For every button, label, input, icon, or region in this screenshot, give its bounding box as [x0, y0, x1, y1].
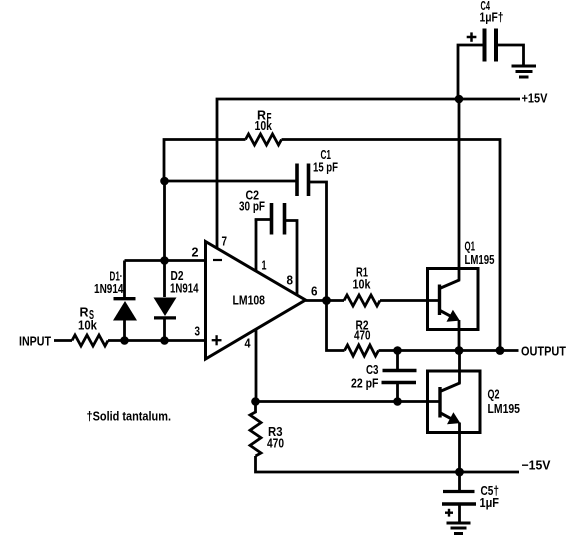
svg-text:3: 3	[195, 324, 201, 339]
node C3 top junction	[393, 346, 402, 355]
transistor Q1 internals	[440, 267, 460, 351]
svg-text:1μF: 1μF	[480, 495, 500, 510]
svg-text:LM108: LM108	[233, 293, 266, 308]
wire input node to pin3	[108, 339, 206, 342]
svg-text:30 pF: 30 pF	[239, 199, 265, 214]
svg-text:10k: 10k	[353, 277, 372, 292]
label C4 plus polarity	[467, 32, 477, 41]
svg-text:−15V: −15V	[522, 458, 551, 473]
node D2 pin2 junction	[160, 256, 169, 265]
capacitor C5	[442, 492, 476, 505]
wire pin2 inverting input	[125, 259, 207, 262]
svg-text:OUTPUT: OUTPUT	[521, 344, 566, 359]
svg-text:15 pF: 15 pF	[313, 160, 338, 175]
label op-amp minus input	[213, 259, 222, 261]
wire R1 to Q1 base	[380, 299, 440, 302]
resistor R1	[344, 295, 380, 306]
wire C5 top stub	[458, 472, 461, 491]
svg-text:1μF†: 1μF†	[480, 10, 504, 25]
wire top rail pin7 to +15V	[217, 99, 520, 255]
wire C3 bottom stub	[396, 383, 399, 402]
wire C3 top stub	[396, 351, 399, 370]
svg-text:10k: 10k	[255, 118, 273, 133]
capacitor C2	[272, 203, 285, 235]
svg-text:22 pF: 22 pF	[351, 376, 379, 391]
wire C4 left lead	[458, 45, 485, 99]
node output Q1 emitter junction	[455, 346, 464, 355]
transistor Q1 LM195 box	[428, 269, 479, 330]
svg-text:4: 4	[245, 336, 252, 351]
label RF	[257, 108, 272, 126]
wire pin6 node down to R2	[327, 301, 345, 351]
svg-text:†Solid tantalum.: †Solid tantalum.	[87, 409, 172, 424]
wire C2 right stub and pin8 vertical	[285, 221, 298, 301]
svg-text:10k: 10k	[78, 318, 98, 333]
node pin6 output junction	[322, 296, 331, 305]
svg-text:INPUT: INPUT	[19, 334, 51, 349]
transistor Q2 internals	[440, 351, 460, 473]
node input D2 junction	[160, 336, 169, 345]
label op-amp plus input	[212, 335, 222, 345]
wire D2 branch vertical	[163, 181, 166, 297]
capacitor C3	[382, 371, 417, 383]
op-amp U1 LM108 triangle	[206, 242, 306, 360]
transistor Q2 LM195 box	[428, 371, 481, 433]
wire pin1 pin4 balance vertical	[255, 220, 258, 402]
wire pin6 to R1	[306, 299, 345, 302]
svg-text:+15V: +15V	[522, 91, 548, 106]
diode D2	[154, 298, 177, 341]
svg-text:1N914: 1N914	[170, 281, 199, 296]
wire C5 bottom stub	[458, 504, 461, 522]
svg-text:6: 6	[311, 284, 318, 299]
svg-text:8: 8	[287, 273, 294, 288]
wire feedback RF rail with right drop to output	[164, 140, 246, 182]
svg-text:1N914: 1N914	[94, 281, 124, 296]
node C3 bottom junction	[393, 397, 402, 406]
resistor R3	[250, 402, 261, 457]
svg-text:7: 7	[222, 234, 228, 249]
wire RF right to output node	[282, 140, 501, 351]
svg-text:2: 2	[192, 245, 199, 260]
svg-text:Q2: Q2	[488, 387, 500, 402]
node output feedback junction	[496, 346, 505, 355]
ground bottom	[447, 523, 471, 534]
wire R2 to output	[379, 349, 519, 352]
svg-text:LM195: LM195	[465, 252, 495, 267]
capacitor C1	[297, 164, 309, 197]
diode D1	[113, 261, 137, 341]
resistor RF	[246, 134, 282, 145]
svg-text:1: 1	[262, 258, 267, 273]
wire pin4 node to Q2 base	[256, 400, 440, 403]
wire +15V vertical to Q1 collector	[458, 99, 461, 270]
node pin4 R3 junction	[251, 397, 260, 406]
wire input lead	[54, 339, 72, 342]
node input D1 junction	[120, 336, 129, 345]
label RS	[80, 305, 95, 323]
wire R3 bottom to -15V rail	[256, 456, 520, 472]
wire C2 left stub	[255, 218, 271, 221]
resistor R2	[345, 345, 379, 356]
ground top right	[512, 66, 537, 77]
capacitor C4	[485, 29, 497, 62]
svg-text:470: 470	[354, 328, 371, 343]
node +15V junction	[455, 95, 464, 104]
svg-text:LM195: LM195	[488, 401, 521, 416]
wire node A to C1	[165, 180, 297, 183]
node A inverting feedback junction	[160, 177, 169, 186]
svg-text:470: 470	[267, 436, 284, 451]
node -15V junction	[455, 468, 464, 477]
wire C4 right lead to ground	[496, 45, 524, 65]
label C5 plus polarity	[445, 509, 453, 517]
wire C1 right to pin6 node	[309, 182, 327, 301]
resistor RS	[72, 335, 108, 346]
